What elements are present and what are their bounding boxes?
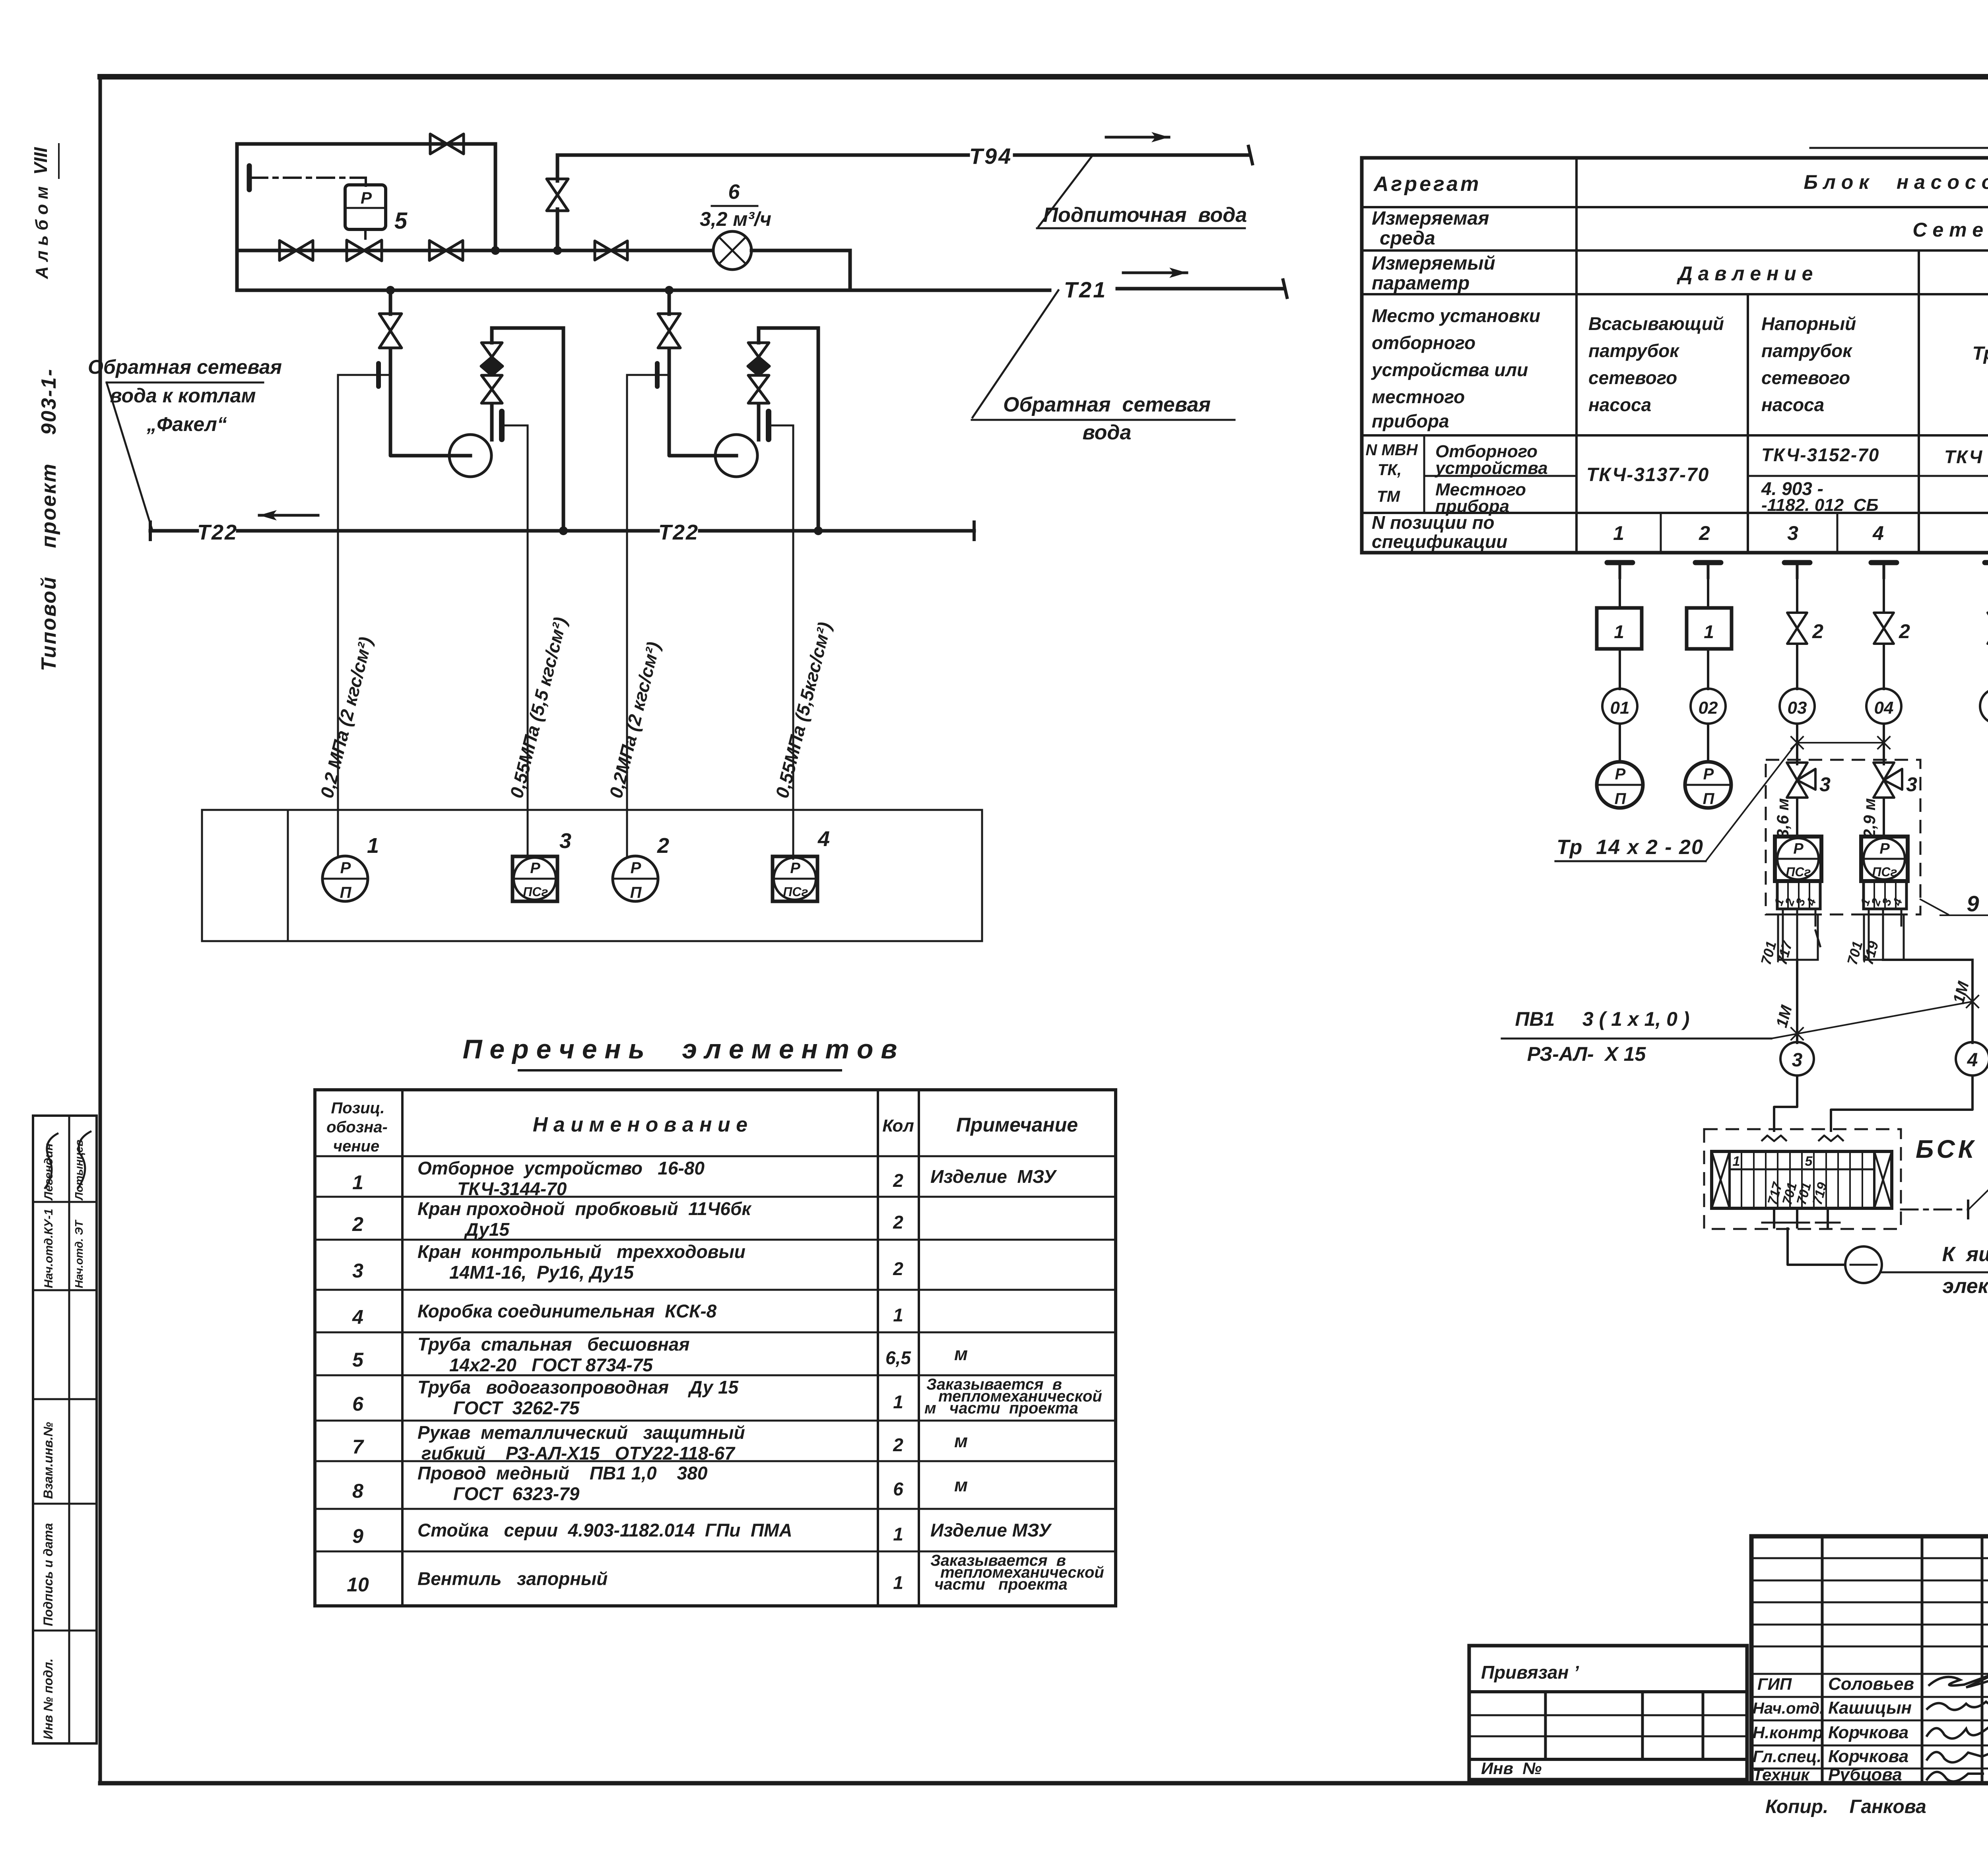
svg-text:прибора: прибора (1372, 411, 1449, 431)
measurement table grid (1362, 158, 1988, 553)
svg-text:Рукав металлический защитны: Рукав металлический защитный (417, 1422, 745, 1443)
wire line4 to circle04 (1883, 644, 1885, 689)
valve on pump 1 suction (379, 314, 402, 331)
svg-text:03: 03 (1788, 698, 1807, 718)
pump 1 suction pressure tap flange (376, 363, 381, 386)
svg-text:1: 1 (893, 1572, 903, 1593)
wire to circle 3 (1796, 960, 1798, 1043)
pipe T21 header line (237, 280, 1287, 297)
wire number circle 4 (1956, 1042, 1988, 1075)
svg-text:1: 1 (1733, 1154, 1740, 1169)
sense line 2 into panel (527, 810, 529, 859)
svg-text:6: 6 (893, 1479, 903, 1499)
svg-text:Инв №: Инв № (1481, 1759, 1541, 1778)
svg-text:Копир. Ганкова: Копир. Ганкова (1765, 1796, 1926, 1817)
svg-text:3: 3 (1819, 773, 1831, 796)
pump 1 discharge pipe (492, 328, 563, 531)
svg-text:N позиции по: N позиции по (1372, 512, 1495, 533)
svg-text:1: 1 (367, 834, 379, 858)
svg-text:0,2 МПа (2 кгс/см²): 0,2 МПа (2 кгс/см²) (316, 635, 376, 800)
tap symbol line 2 (1695, 563, 1721, 578)
svg-text:Агрегат: Агрегат (1373, 173, 1481, 196)
svg-text:вода к котлам: вода к котлам (110, 384, 256, 407)
manometer 1 R/P (322, 856, 368, 901)
pipe middle line right segment to header (751, 250, 850, 290)
svg-text:3,2 м³/ч: 3,2 м³/ч (700, 208, 771, 230)
svg-text:электрооборудования , альб V: электрооборудования , альб VII ) (1942, 1275, 1988, 1298)
three-way valve 3 line3 (1787, 760, 1815, 798)
svg-text:ТКЧ-3144-70: ТКЧ-3144-70 (457, 1178, 567, 1199)
svg-text:4: 4 (1872, 522, 1884, 544)
instrument 4 R/PSg (773, 856, 817, 901)
junction node middle-top branch (491, 246, 500, 255)
label K obshchemu konturu zazemleniya (1969, 1131, 1988, 1209)
svg-text:Тр 14 х 2 - 20: Тр 14 х 2 - 20 (1557, 836, 1704, 859)
valve on pump 2 suction (658, 314, 680, 331)
svg-text:сетевого: сетевого (1761, 367, 1850, 388)
svg-text:Обратная сетевая: Обратная сетевая (88, 356, 282, 378)
svg-text:устройства: устройства (1435, 458, 1548, 478)
svg-text:1: 1 (893, 1524, 903, 1545)
svg-text:Коробка соединительная КСК-8: Коробка соединительная КСК-8 (417, 1301, 717, 1322)
svg-text:6: 6 (728, 181, 740, 204)
svg-text:2,9 м: 2,9 м (1860, 798, 1879, 839)
svg-text:Измеряемый: Измеряемый (1372, 253, 1495, 274)
check valve on pump 2 discharge (748, 343, 769, 403)
svg-text:717: 717 (1773, 939, 1796, 967)
svg-text:РЗ-АЛ- Х 15: РЗ-АЛ- Х 15 (1527, 1043, 1646, 1065)
svg-text:Соловьев: Соловьев (1828, 1674, 1914, 1694)
svg-text:Техник: Техник (1753, 1765, 1810, 1784)
overline above Blok nasosov (1810, 147, 1988, 149)
label PV1 3 1x1,0 (1502, 1008, 1771, 1065)
svg-text:ТМ: ТМ (1377, 488, 1401, 505)
svg-text:П: П (630, 884, 642, 901)
svg-text:Напорный: Напорный (1761, 313, 1856, 334)
terminal strip line4 (1858, 881, 1906, 909)
primary device box 1 line2 (1687, 608, 1732, 649)
sense line 3 into panel (626, 810, 628, 856)
svg-text:Р: Р (1703, 765, 1714, 783)
pump 2 circle (715, 435, 757, 477)
tap symbol line 5 (1985, 563, 1988, 578)
title block outline (1751, 1536, 1988, 1783)
sense line 4 into panel (792, 810, 794, 859)
svg-text:Нач.отд. ЭТ: Нач.отд. ЭТ (73, 1219, 85, 1288)
svg-text:Измеряемая: Измеряемая (1372, 208, 1489, 229)
manometer R/P line1 (1597, 762, 1643, 808)
flow arrow on T22 (259, 510, 318, 520)
pump 1 discharge sense line (504, 425, 528, 810)
element row 3 (352, 1241, 903, 1283)
wire number circle 03 (1780, 689, 1815, 724)
svg-text:04: 04 (1874, 698, 1894, 718)
svg-text:ТКЧ-3137-70: ТКЧ-3137-70 (1586, 464, 1709, 485)
stand 9 dashed box (1766, 760, 1920, 914)
svg-text:Трубопровод обратной сет: Трубопровод обратной сетевой воды (1972, 343, 1988, 364)
element row 6 (352, 1376, 1102, 1418)
svg-text:2: 2 (1899, 620, 1910, 643)
svg-text:1: 1 (1613, 522, 1624, 544)
pump 2 suction pipe (669, 347, 716, 456)
pressure regulator head 5 box (345, 185, 386, 239)
svg-text:5: 5 (394, 208, 408, 234)
local instruments panel box (202, 810, 982, 941)
wire threeway to PSg line3 (1796, 798, 1798, 837)
tap symbol line 4 (1871, 563, 1897, 578)
left margin stamp table (33, 1116, 97, 1743)
svg-text:6,5: 6,5 (885, 1347, 911, 1368)
wire number circle 3 (1780, 1042, 1814, 1075)
pipe loop top line (237, 142, 495, 146)
svg-text:10: 10 (347, 1574, 369, 1596)
svg-text:Т22: Т22 (658, 520, 699, 544)
element row 1 (352, 1158, 1057, 1199)
wire line2 box to circle02 (1707, 649, 1709, 689)
svg-text:Вентиль запорный: Вентиль запорный (417, 1569, 608, 1589)
pump 2 suction sense line (627, 375, 666, 810)
cable sleeve line3 (1778, 909, 1820, 960)
svg-text:гибкий РЗ-АЛ-Х15 ОТУ22-11: гибкий РЗ-АЛ-Х15 ОТУ22-118-67 (421, 1443, 736, 1464)
svg-text:Рубцова: Рубцова (1828, 1765, 1902, 1784)
pump 2 discharge tap flange (766, 412, 771, 439)
svg-text:Привязан ’: Привязан ’ (1481, 1662, 1579, 1683)
pump 1 suction drop (389, 290, 392, 314)
svg-text:Изделие МЗУ: Изделие МЗУ (930, 1166, 1058, 1187)
svg-text:отборного: отборного (1372, 332, 1475, 353)
svg-text:Р: Р (361, 188, 372, 207)
svg-text:Р: Р (530, 860, 540, 877)
svg-text:Т21: Т21 (1064, 277, 1107, 302)
svg-text:Д а в л е н и е: Д а в л е н и е (1677, 262, 1813, 285)
pump 2 suction drop (668, 290, 671, 314)
element list title Perechen elementov (463, 1034, 897, 1070)
svg-text:Нач.отд.: Нач.отд. (1753, 1700, 1824, 1717)
svg-text:Взам.инв.№: Взам.инв.№ (41, 1422, 55, 1499)
wire BSK to circle Ya (1788, 1227, 1845, 1265)
wire labels 701 717 (1757, 939, 1796, 967)
element row 10 (347, 1552, 1104, 1596)
tube run between lines 3-4 (1791, 737, 1890, 749)
svg-text:1М: 1М (1773, 1003, 1796, 1029)
wire line1 box to circle01 (1619, 649, 1621, 689)
element row 4 (352, 1301, 903, 1328)
svg-text:Подпиточная вода: Подпиточная вода (1043, 204, 1247, 227)
svg-text:м части проекта: м части проекта (924, 1400, 1078, 1417)
svg-text:м: м (954, 1343, 968, 1364)
wire number circle 05 (1980, 689, 1988, 724)
circle to box Ya (1845, 1246, 1882, 1283)
svg-text:1: 1 (1704, 621, 1714, 642)
svg-text:насоса: насоса (1588, 394, 1651, 415)
valve 10 on line5 (1988, 613, 1988, 628)
svg-text:3: 3 (1792, 1050, 1803, 1071)
wire line4 to circle 4 (1883, 960, 1972, 1043)
pump 1 discharge tap flange (499, 412, 505, 439)
svg-text:Корчкова: Корчкова (1828, 1747, 1908, 1766)
svg-text:Труба стальная бесшовная: Труба стальная бесшовная (417, 1334, 689, 1355)
svg-text:Гл.спец.: Гл.спец. (1753, 1747, 1821, 1766)
svg-text:2: 2 (657, 834, 669, 858)
svg-text:БСК: БСК (1916, 1135, 1977, 1163)
manometer 2 R/P (613, 856, 658, 901)
valve V2 on middle line (429, 241, 446, 260)
svg-text:14х2-20 ГОСТ 8734-75: 14х2-20 ГОСТ 8734-75 (449, 1355, 653, 1375)
wire circle3 to BSK (1774, 1075, 1797, 1132)
element row 5 (352, 1334, 968, 1375)
svg-text:Всасывающий: Всасывающий (1588, 313, 1724, 334)
svg-text:ТКЧ-3152-70: ТКЧ-3152-70 (1761, 445, 1879, 465)
svg-text:2: 2 (893, 1258, 903, 1279)
svg-text:Позиц.: Позиц. (331, 1099, 385, 1117)
svg-text:Кол: Кол (882, 1116, 914, 1136)
valve V1 on middle line (280, 241, 296, 260)
svg-text:14М1-16, Ру16, Ду15: 14М1-16, Ру16, Ду15 (449, 1262, 634, 1283)
svg-text:Р: Р (1615, 765, 1626, 783)
svg-text:8: 8 (352, 1480, 363, 1502)
svg-text:4: 4 (1967, 1050, 1978, 1071)
svg-text:Б л о к н а с о с о в: Б л о к н а с о с о в с е т е в о й в о … (1804, 171, 1988, 193)
svg-text:ГОСТ 3262-75: ГОСТ 3262-75 (453, 1398, 580, 1418)
svg-text:4: 4 (1804, 897, 1819, 908)
privyazan sub-table (1469, 1646, 1747, 1780)
wire threeway to PSg line4 (1883, 798, 1885, 837)
svg-text:4: 4 (1890, 897, 1905, 908)
svg-text:Изделие МЗУ: Изделие МЗУ (930, 1520, 1052, 1541)
svg-text:3: 3 (559, 829, 571, 853)
measurement table row N pozicii (1372, 512, 1988, 552)
pipe T22 header (150, 522, 974, 540)
svg-text:2: 2 (893, 1170, 903, 1191)
junction node T22 pump1 (559, 526, 568, 535)
BSK cable glands (1761, 1136, 1844, 1141)
junction node suction 2 (665, 286, 674, 295)
element row 9 (352, 1520, 1052, 1547)
svg-text:Нач.отд.КУ-1: Нач.отд.КУ-1 (42, 1209, 55, 1288)
svg-text:2: 2 (1699, 522, 1710, 544)
svg-text:А л ь б о м: А л ь б о м (32, 186, 52, 279)
wire line2 to box (1707, 578, 1709, 608)
svg-text:насоса: насоса (1761, 394, 1824, 415)
svg-text:параметр: параметр (1372, 273, 1470, 294)
svg-text:сетевого: сетевого (1588, 367, 1677, 388)
wire circle03 down (1796, 724, 1798, 763)
flow arrow on T94 (1106, 132, 1169, 142)
svg-text:ГОСТ 6323-79: ГОСТ 6323-79 (453, 1483, 580, 1504)
pump 1 circle (449, 435, 491, 477)
element row 8 (352, 1463, 968, 1504)
pump 1 suction sense line (338, 375, 388, 810)
T94 branch vertical with valve (556, 155, 559, 250)
callout Podpitochnaya voda (1037, 156, 1247, 228)
svg-text:1: 1 (352, 1171, 363, 1194)
svg-text:3: 3 (352, 1260, 363, 1282)
junction node suction 1 (386, 286, 395, 295)
pipe loop left vertical (235, 144, 239, 290)
junction box BSK dashed outline (1704, 1129, 1901, 1229)
svg-text:Примечание: Примечание (956, 1114, 1078, 1136)
impulse dash-dot line to regulator (250, 178, 366, 186)
svg-text:Р: Р (1793, 841, 1804, 857)
svg-text:Отборное устройство 16-80: Отборное устройство 16-80 (417, 1158, 705, 1178)
svg-text:обозна-: обозна- (326, 1118, 388, 1136)
wire circle02 to manometer (1707, 724, 1709, 762)
svg-text:спецификации: спецификации (1372, 531, 1507, 552)
pump 1 suction pipe (390, 347, 450, 456)
svg-text:Подпись и дата: Подпись и дата (41, 1523, 55, 1626)
margin note Album VIII (30, 144, 59, 280)
svg-text:местного: местного (1372, 386, 1465, 407)
svg-text:П: П (1703, 790, 1715, 808)
svg-text:7: 7 (352, 1436, 364, 1458)
svg-text:ГИП: ГИП (1757, 1675, 1792, 1693)
svg-text:Кашицын: Кашицын (1828, 1698, 1912, 1718)
svg-text:Труба водогазопроводная Д: Труба водогазопроводная Ду 15 (417, 1377, 739, 1398)
element row 2 (352, 1198, 903, 1240)
svg-text:Н а и м е н о в а н и е: Н а и м е н о в а н и е (533, 1113, 747, 1136)
leader line PV1 to wires (1771, 996, 1978, 1040)
svg-text:Р: Р (340, 859, 351, 877)
pipe T94 line (557, 146, 1252, 164)
svg-text:0,2МПа (2 кгс/см²): 0,2МПа (2 кгс/см²) (605, 640, 664, 800)
svg-text:0,55МПа (5,5 кгс/см²): 0,55МПа (5,5 кгс/см²) (506, 615, 571, 800)
element list table grid (315, 1090, 1116, 1606)
svg-text:1: 1 (893, 1305, 903, 1326)
valve V3 on middle line (595, 241, 611, 260)
control valve with regulator 5 (347, 240, 364, 261)
terminal strip line3 (1772, 881, 1820, 909)
sense line 1 into panel (337, 810, 339, 856)
valve on T94 branch (547, 179, 568, 195)
svg-text:2: 2 (1812, 620, 1823, 643)
svg-text:ТК,: ТК, (1378, 461, 1402, 479)
svg-text:м: м (954, 1475, 968, 1495)
check valve on pump 1 discharge (481, 343, 503, 403)
svg-text:„Факел“: „Факел“ (146, 413, 227, 435)
svg-text:5: 5 (1805, 1154, 1813, 1169)
instrument R/PSg line4 (1861, 837, 1908, 881)
svg-text:П е р е ч е н ь э л е м е: П е р е ч е н ь э л е м е н т о в (463, 1034, 897, 1064)
svg-text:Н.контр: Н.контр (1753, 1723, 1823, 1742)
svg-text:3: 3 (1787, 522, 1798, 544)
junction node T22 pump2 (814, 526, 823, 535)
svg-text:3,6 м: 3,6 м (1773, 798, 1792, 838)
svg-text:1: 1 (893, 1392, 903, 1412)
wire line1 to box (1619, 578, 1621, 608)
svg-text:0,55МПа (5,5кгс/см²): 0,55МПа (5,5кгс/см²) (771, 620, 835, 800)
svg-text:Кран контрольный трехходовы: Кран контрольный трехходовыи (417, 1241, 745, 1262)
svg-text:части проекта: части проекта (934, 1576, 1068, 1593)
valve on top bypass line (430, 134, 447, 154)
svg-text:патрубок: патрубок (1761, 340, 1853, 361)
wire number circle 01 (1602, 689, 1637, 724)
svg-text:VIII: VIII (30, 147, 51, 175)
measurement table row N MVN (1365, 441, 1988, 516)
pipe loop middle line (237, 249, 712, 252)
svg-text:ПСг: ПСг (1786, 865, 1811, 879)
svg-text:Т94: Т94 (969, 144, 1013, 169)
signature rows (1753, 1674, 1914, 1784)
svg-text:П: П (1615, 790, 1627, 808)
grounding dash-dot with tick (1901, 1201, 1968, 1218)
svg-text:5: 5 (352, 1349, 364, 1371)
svg-text:устройства или: устройства или (1371, 359, 1528, 380)
pump 2 discharge pipe (759, 328, 818, 531)
svg-text:Корчкова: Корчкова (1828, 1723, 1908, 1742)
svg-text:Р: Р (790, 860, 800, 877)
svg-text:Р: Р (631, 859, 641, 877)
wire circle01 to manometer (1619, 724, 1621, 762)
wire number circle 02 (1691, 689, 1726, 724)
manometer R/P line2 (1685, 762, 1731, 808)
wire labels 701 719 (1844, 939, 1881, 967)
svg-text:1: 1 (1614, 621, 1624, 642)
svg-text:Место установки: Место установки (1372, 305, 1540, 326)
svg-text:Типовой проект 903-1-: Типовой проект 903-1- (37, 368, 60, 671)
svg-text:П: П (340, 884, 352, 901)
stamp cell Nach.otd.KU-1 Legendin (42, 1131, 91, 1288)
svg-text:2: 2 (352, 1213, 363, 1235)
svg-text:4: 4 (817, 827, 830, 851)
wire line4 sleeve (1864, 909, 1904, 960)
tap symbol line 3 (1784, 563, 1810, 578)
svg-text:3: 3 (1906, 773, 1917, 796)
svg-text:Инв № подл.: Инв № подл. (41, 1658, 55, 1739)
label K yashchiku Ya (1882, 1243, 1988, 1298)
svg-text:ПВ1 3 ( 1 х 1, 0 ): ПВ1 3 ( 1 х 1, 0 ) (1515, 1008, 1690, 1030)
callout Obratnaya setevaya voda k kotlam Fakel (88, 356, 282, 529)
svg-text:ТКЧ - 3152 - 70: ТКЧ - 3152 - 70 (1944, 446, 1988, 467)
flow meter 6 (713, 231, 751, 270)
valve 2 on line4 (1874, 613, 1894, 628)
wire circle4 to BSK (1831, 1075, 1972, 1132)
svg-text:01: 01 (1610, 698, 1630, 718)
svg-text:Кран проходной пробковый 11Ч: Кран проходной пробковый 11Ч6бк (417, 1198, 752, 1219)
svg-text:N МВН: N МВН (1365, 441, 1418, 459)
tap symbol line 1 (1607, 563, 1633, 578)
svg-text:ПСг: ПСг (783, 885, 808, 899)
element list header (326, 1099, 1078, 1155)
primary device box 1 line1 (1597, 608, 1642, 649)
svg-text:9: 9 (1967, 891, 1979, 916)
svg-text:ПСг: ПСг (523, 885, 548, 899)
svg-text:2: 2 (893, 1435, 903, 1455)
pressure sensor impulse flange (247, 166, 252, 190)
svg-text:Стойка серии 4.903-1182.014: Стойка серии 4.903-1182.014 ГПи ПМА (417, 1520, 792, 1541)
measurement table header texts (1372, 171, 1988, 295)
svg-text:2: 2 (893, 1212, 903, 1233)
svg-text:среда: среда (1380, 228, 1435, 249)
measurement table row place-of-installation (1371, 305, 1988, 431)
wire line3 upper (1796, 578, 1798, 612)
svg-text:Р: Р (1879, 841, 1890, 857)
svg-text:6: 6 (352, 1393, 364, 1415)
junction node middle-T94 branch (553, 246, 562, 255)
three-way valve 3 line4 (1873, 760, 1902, 798)
instrument 3 R/PSg (513, 856, 557, 901)
callout Obratnaya setevaya voda right (972, 290, 1235, 444)
wire line3 to circle03 (1796, 644, 1798, 689)
svg-text:вода: вода (1083, 421, 1132, 444)
svg-text:9: 9 (352, 1525, 363, 1547)
svg-text:С е т е в а я в о д а: С е т е в а я в о д а (1912, 219, 1988, 241)
svg-text:Легендин: Легендин (42, 1143, 55, 1201)
wire line4 upper (1883, 578, 1885, 612)
valve 2 on line3 (1787, 613, 1807, 628)
flow arrow on T21 (1123, 268, 1187, 278)
svg-text:02: 02 (1699, 698, 1718, 718)
pump 2 suction pressure tap flange (655, 363, 660, 386)
